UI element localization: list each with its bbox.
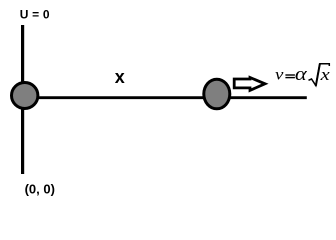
formula equals sign [285, 74, 295, 75]
svg-text:x: x [320, 65, 331, 84]
svg-text:v: v [275, 65, 284, 83]
formula radical sign [309, 64, 330, 86]
ball right moving [204, 79, 230, 109]
svg-text:(0, 0): (0, 0) [25, 181, 55, 196]
svg-text:x: x [115, 67, 125, 87]
wire vertical axis line [21, 25, 24, 174]
ball left at origin [12, 83, 38, 109]
svg-text:α: α [295, 62, 308, 84]
svg-text:U = 0: U = 0 [20, 8, 50, 22]
velocity block arrow [234, 78, 265, 91]
wire horizontal track line [25, 96, 307, 99]
